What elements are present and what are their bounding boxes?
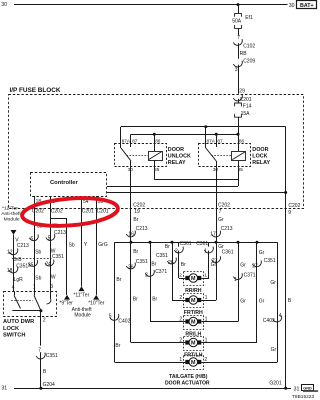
svg-text:DOOR ACTUATOR: DOOR ACTUATOR (165, 380, 210, 386)
svg-text:26: 26 (168, 260, 174, 266)
svg-text:DOOR: DOOR (168, 147, 184, 153)
svg-text:*9"Ter: *9"Ter (59, 301, 73, 307)
svg-text:Gr: Gr (259, 299, 265, 305)
svg-text:Sb: Sb (35, 249, 41, 255)
svg-text:C371: C371 (244, 272, 256, 278)
svg-text:1: 1 (179, 357, 182, 363)
svg-text:*12"Ter: *12"Ter (2, 206, 18, 212)
svg-text:Br: Br (115, 343, 120, 349)
svg-text:RELAY: RELAY (168, 160, 186, 166)
svg-text:C402: C402 (263, 318, 275, 324)
svg-text:RB: RB (240, 51, 248, 57)
svg-text:W: W (51, 274, 56, 280)
svg-text:M: M (191, 360, 196, 366)
svg-text:C361: C361 (222, 249, 234, 255)
svg-text:1: 1 (205, 338, 208, 344)
svg-text:30: 30 (289, 3, 295, 9)
svg-text:2: 2 (204, 357, 207, 363)
svg-text:Sb: Sb (69, 242, 75, 248)
svg-text:C209: C209 (243, 59, 255, 65)
svg-text:C202: C202 (133, 202, 145, 208)
svg-text:C402: C402 (118, 319, 130, 325)
svg-text:Br: Br (116, 277, 121, 283)
svg-text:Gr: Gr (270, 280, 276, 286)
svg-text:C202: C202 (218, 202, 230, 208)
svg-text:31: 31 (294, 386, 300, 392)
svg-text:5: 5 (48, 236, 51, 242)
svg-text:G204: G204 (43, 382, 55, 388)
svg-text:C202: C202 (51, 209, 63, 215)
svg-text:16: 16 (128, 232, 134, 238)
svg-text:27: 27 (252, 264, 258, 270)
svg-text:4: 4 (12, 285, 15, 291)
svg-text:87: 87 (132, 138, 138, 143)
svg-text:Gr: Gr (240, 262, 246, 268)
svg-text:C361: C361 (196, 241, 208, 247)
svg-text:M: M (191, 341, 196, 347)
svg-text:17: 17 (210, 232, 216, 238)
svg-text:2: 2 (43, 318, 46, 324)
svg-text:I/P FUSE BLOCK: I/P FUSE BLOCK (10, 87, 61, 94)
svg-text:1: 1 (204, 273, 207, 278)
svg-text:3: 3 (50, 284, 53, 290)
svg-text:GND: GND (303, 387, 312, 391)
svg-text:Sb: Sb (35, 276, 41, 282)
svg-text:87A: 87A (207, 138, 216, 143)
svg-text:LOCK: LOCK (3, 326, 20, 332)
svg-text:5: 5 (109, 313, 112, 319)
svg-text:DOOR: DOOR (252, 147, 268, 153)
svg-text:30: 30 (1, 2, 7, 8)
svg-text:C213: C213 (17, 243, 29, 249)
svg-text:C201: C201 (240, 97, 252, 103)
svg-text:TAILGATE (H/B): TAILGATE (H/B) (169, 374, 208, 380)
svg-text:C202: C202 (32, 209, 44, 215)
svg-text:LOCK: LOCK (252, 154, 267, 160)
svg-text:C201: C201 (82, 209, 94, 215)
svg-text:BrB: BrB (13, 257, 22, 263)
svg-text:31: 31 (1, 386, 7, 392)
svg-text:2: 2 (179, 273, 182, 278)
svg-text:C213: C213 (136, 226, 148, 232)
svg-text:C202: C202 (288, 203, 300, 209)
svg-text:BAT+: BAT+ (300, 3, 314, 9)
svg-text:C351: C351 (136, 259, 148, 265)
svg-text:86: 86 (239, 138, 245, 143)
svg-text:Ef1: Ef1 (245, 15, 253, 21)
svg-text:G201: G201 (269, 380, 281, 386)
svg-text:7: 7 (237, 35, 240, 41)
svg-text:C201: C201 (97, 209, 109, 215)
svg-text:C351: C351 (156, 253, 168, 259)
svg-text:6: 6 (30, 236, 33, 242)
svg-text:F14: F14 (243, 104, 252, 110)
svg-text:Gr: Gr (271, 347, 277, 353)
svg-text:C371: C371 (155, 269, 167, 275)
svg-text:87: 87 (217, 138, 223, 143)
svg-text:2: 2 (179, 317, 182, 323)
svg-text:Anti-theft: Anti-theft (1, 211, 21, 217)
svg-text:2: 2 (179, 338, 182, 344)
svg-text:3: 3 (235, 67, 238, 73)
svg-text:30: 30 (213, 167, 219, 172)
svg-text:C213: C213 (221, 226, 233, 232)
svg-text:1: 1 (234, 277, 237, 283)
svg-text:9: 9 (288, 210, 291, 216)
svg-text:29: 29 (239, 89, 245, 95)
svg-text:1: 1 (205, 295, 208, 301)
svg-text:AUTO DWR: AUTO DWR (3, 319, 34, 325)
svg-text:86: 86 (155, 138, 161, 143)
svg-text:*10"Ter: *10"Ter (88, 301, 105, 307)
svg-text:2: 2 (175, 249, 178, 255)
svg-text:4: 4 (279, 313, 282, 319)
svg-text:1: 1 (33, 285, 36, 291)
svg-text:Br: Br (133, 249, 138, 255)
svg-text:LgR: LgR (14, 277, 24, 283)
svg-text:1: 1 (205, 317, 208, 323)
svg-text:C361: C361 (180, 241, 192, 247)
svg-text:25: 25 (28, 262, 34, 268)
svg-text:19: 19 (134, 209, 140, 215)
svg-text:1: 1 (204, 249, 207, 255)
svg-text:50A: 50A (232, 18, 242, 24)
svg-text:Gr: Gr (259, 250, 265, 256)
svg-text:Module: Module (4, 216, 20, 222)
svg-text:Controller: Controller (50, 180, 78, 186)
svg-text:87A: 87A (122, 138, 131, 143)
svg-text:Br: Br (151, 262, 156, 268)
svg-text:12: 12 (7, 250, 13, 256)
svg-text:C351: C351 (46, 353, 58, 359)
svg-text:*11"Ter: *11"Ter (73, 292, 89, 298)
svg-text:UNLOCK: UNLOCK (168, 154, 191, 160)
svg-text:Module: Module (74, 313, 91, 319)
svg-text:C351: C351 (264, 258, 276, 264)
svg-text:RR/RH: RR/RH (185, 288, 202, 294)
svg-text:C351: C351 (52, 254, 64, 260)
svg-text:26: 26 (128, 265, 134, 271)
svg-text:RELAY: RELAY (252, 160, 270, 166)
svg-text:18: 18 (7, 268, 13, 274)
svg-text:27: 27 (212, 258, 218, 264)
svg-text:C213: C213 (54, 230, 66, 236)
svg-text:2: 2 (145, 272, 148, 278)
svg-text:2: 2 (179, 295, 182, 301)
svg-text:GrG: GrG (98, 242, 108, 248)
svg-text:Gr: Gr (218, 217, 224, 223)
svg-text:Br: Br (165, 244, 170, 250)
svg-text:FRT/RH: FRT/RH (184, 310, 203, 316)
svg-text:C102: C102 (243, 44, 255, 50)
svg-text:SWITCH: SWITCH (3, 333, 25, 339)
svg-text:7: 7 (219, 209, 222, 215)
svg-text:M: M (191, 276, 196, 282)
svg-text:T8B15223: T8B15223 (292, 394, 314, 400)
svg-text:24: 24 (45, 262, 51, 268)
svg-text:Br: Br (133, 296, 138, 302)
svg-text:7: 7 (38, 348, 41, 354)
svg-text:M: M (191, 320, 196, 326)
svg-text:Gr: Gr (240, 299, 246, 305)
svg-text:M: M (191, 298, 196, 304)
svg-text:15A: 15A (241, 111, 251, 117)
svg-text:Br: Br (181, 262, 186, 268)
svg-text:Br: Br (152, 296, 157, 302)
svg-text:Br: Br (133, 217, 138, 223)
